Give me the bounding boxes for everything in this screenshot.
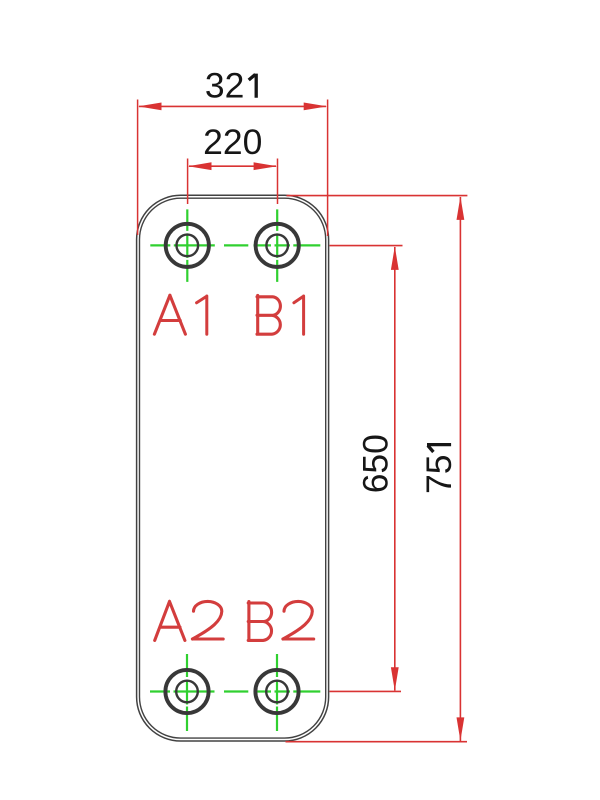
centerline A2 horizontal <box>150 690 215 692</box>
dimension 321 line <box>139 105 326 107</box>
dimension 650 connector bottom <box>330 690 402 692</box>
svg-text:32: 32 <box>205 66 245 106</box>
port B1 <box>256 224 299 267</box>
dimension 751 arrow up <box>457 196 465 220</box>
centerline A1 vertical <box>186 209 188 282</box>
centerline A1 horizontal <box>150 244 215 246</box>
dimension 321 arrow left <box>138 103 162 111</box>
centerline B2 horizontal <box>254 690 321 692</box>
centerline bridge top row <box>224 244 248 246</box>
dimension 751 line <box>459 197 461 741</box>
label B2 <box>248 601 314 640</box>
centerline B1 horizontal <box>254 244 321 246</box>
dimension 650 line <box>394 247 396 691</box>
centerline A2 vertical <box>186 654 188 731</box>
svg-text:650: 650 <box>355 434 395 493</box>
dimension 321 extension line left <box>137 100 139 236</box>
dimension 321 arrow right <box>304 103 328 111</box>
dimension 650 arrow down <box>391 667 399 691</box>
dimension 751 connector bottom <box>286 741 468 743</box>
dimension 220 line <box>189 165 276 167</box>
port A2 <box>165 670 208 713</box>
svg-text:75: 75 <box>419 455 459 495</box>
label B1 <box>257 295 304 334</box>
dimension 650 connector top <box>330 245 403 247</box>
dimension 751 connector top <box>287 195 468 197</box>
port A1 <box>166 224 209 267</box>
port B2 <box>255 670 298 713</box>
label A1 <box>154 295 206 334</box>
dimension 751 arrow down <box>457 717 465 741</box>
centerline B2 vertical <box>276 654 278 731</box>
centerline bridge bottom row <box>224 690 248 692</box>
dimension 650 arrow up <box>391 246 399 270</box>
dimension 220 extension line left <box>187 159 189 205</box>
svg-text:220: 220 <box>203 122 262 162</box>
dimension 220 extension line right <box>277 159 279 205</box>
dimension text 751 <box>419 445 459 494</box>
centerline B1 vertical <box>276 209 278 282</box>
plate outline inner <box>140 198 326 738</box>
label A2 <box>155 601 224 640</box>
dimension 220 arrow right <box>254 162 278 170</box>
dimension 220 arrow left <box>188 162 212 170</box>
plate outline outer <box>137 195 329 741</box>
dimension 321 extension line right <box>327 100 329 237</box>
